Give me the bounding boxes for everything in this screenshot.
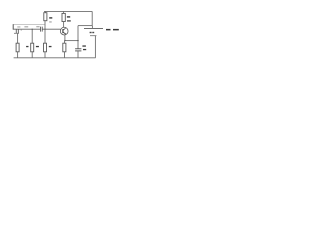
node Rb junction	[32, 29, 33, 30]
node base junction R1	[44, 29, 45, 30]
wire step horizontal	[78, 25, 92, 27]
label battery 12 V	[90, 32, 92, 33]
wire Rc top lead	[44, 29, 46, 43]
resistor Rc body	[44, 43, 47, 52]
label C2 value	[83, 49, 86, 50]
resistor Rb body	[31, 43, 34, 52]
transistor Q1 collector stroke	[63, 28, 66, 30]
label faint above input 3	[36, 26, 39, 27]
resistor Ra bottom lead	[17, 52, 19, 58]
wire RE top lead	[64, 41, 66, 44]
capacitor C2 top plate	[75, 48, 81, 50]
source vi left plate	[15, 30, 17, 34]
label faint above input 1	[17, 26, 20, 27]
label Rc right	[49, 46, 52, 47]
resistor RC top lead	[63, 11, 65, 13]
wire Rb top lead	[31, 29, 33, 43]
wire source to Ra	[17, 34, 19, 44]
label R1 name	[49, 17, 52, 18]
label C2 name	[82, 45, 86, 46]
wire step vertical to cap C2	[77, 26, 79, 49]
resistor R1 top lead	[44, 11, 46, 12]
battery B1 long plate	[84, 28, 103, 30]
resistor RE bottom lead	[64, 52, 66, 58]
wire emitter lead down	[64, 35, 66, 41]
wire top supply rail	[44, 10, 92, 12]
battery B1 top lead	[91, 26, 93, 29]
node nub below wire	[20, 30, 23, 31]
resistor Ra body	[16, 43, 19, 52]
node C2 junction	[77, 40, 78, 41]
label right of battery 2	[113, 29, 119, 31]
node emitter junction	[64, 40, 65, 41]
transistor Q1 emitter stroke with arrow	[63, 32, 66, 34]
label Rb left	[26, 46, 28, 47]
label Rb right	[36, 46, 39, 47]
label right of battery 1	[106, 29, 111, 31]
source vi bottom line	[14, 32, 19, 34]
capacitor C2 bottom lead	[77, 51, 79, 58]
label RC value	[67, 20, 71, 21]
resistor R1 body	[44, 13, 47, 21]
transistor Q1 base bar	[62, 29, 64, 33]
label R1 value (faint)	[49, 21, 52, 22]
battery B1 short plate	[90, 35, 96, 37]
source vi right plate	[17, 30, 19, 34]
capacitor C1 right plate	[41, 27, 43, 32]
resistor RC body	[62, 13, 65, 21]
wire emitter horizontal to C2 node	[65, 40, 78, 42]
resistor RC bottom lead	[63, 22, 65, 28]
battery B1 bottom lead	[94, 36, 96, 58]
wire base line	[13, 28, 40, 30]
wire rail right drop	[91, 11, 93, 25]
capacitor C1 left plate	[40, 27, 42, 32]
resistor Rc bottom lead	[44, 52, 46, 58]
label faint above input 2	[24, 26, 28, 27]
resistor Rb bottom lead	[31, 52, 33, 58]
input terminal bar	[12, 24, 14, 29]
label RC name	[67, 16, 70, 17]
resistor R1 bottom lead	[44, 21, 46, 30]
wire faint upper input line	[13, 24, 45, 26]
resistor RE body	[63, 43, 66, 52]
capacitor C2 bottom plate	[75, 50, 81, 52]
transistor Q1 circle	[60, 27, 68, 35]
wire bottom ground rail	[14, 57, 96, 59]
